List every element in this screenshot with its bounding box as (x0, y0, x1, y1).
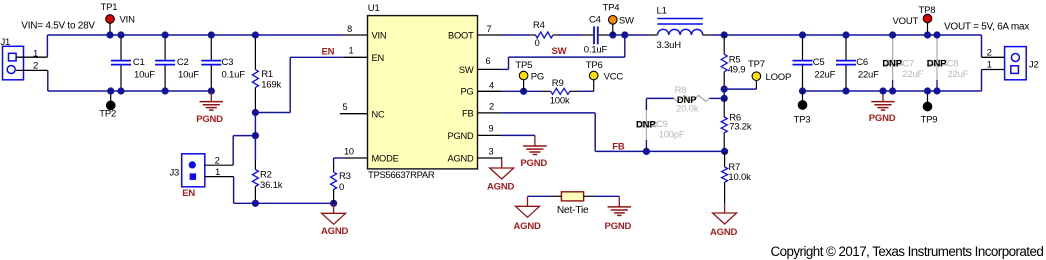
testpoint TP3 (black) (798, 91, 807, 109)
label VCC at TP6 (604, 72, 624, 83)
label TP2 (99, 109, 116, 120)
svg-text:22uF: 22uF (902, 69, 923, 80)
node PGND stub junction (879, 87, 886, 94)
label R8 grey (675, 85, 687, 96)
label VIN at TP1 (120, 15, 136, 26)
label U1 (368, 3, 380, 14)
svg-text:TPS56637RPAR: TPS56637RPAR (368, 170, 435, 181)
svg-text:VIN: VIN (372, 31, 387, 41)
svg-text:2: 2 (489, 102, 494, 112)
wire bottom rail to J2 pin1 (982, 70, 1005, 92)
label C1 (133, 57, 145, 68)
capacitor C7 (DNP, grey) (883, 37, 903, 91)
svg-text:VIN= 4.5V to 28V: VIN= 4.5V to 28V (21, 21, 95, 32)
svg-text:TP7: TP7 (748, 59, 765, 70)
label R1 value 169k (261, 79, 281, 90)
svg-text:22uF: 22uF (858, 69, 879, 80)
label TP7 (748, 59, 765, 70)
node TP9 junction (924, 87, 931, 94)
svg-text:100k: 100k (550, 95, 570, 106)
J3 pin 2 number (215, 155, 220, 166)
label R9 value 100k (550, 95, 570, 106)
node C1 bottom (117, 87, 124, 94)
label R7 value 10.0k (728, 172, 751, 183)
label TP8 (919, 5, 936, 16)
svg-text:AGND: AGND (321, 226, 349, 237)
svg-text:DNP: DNP (636, 120, 656, 131)
label L1 (657, 5, 667, 16)
capacitor C8 (DNP, grey) (927, 37, 947, 91)
svg-text:PGND: PGND (605, 221, 632, 232)
node C2 bottom (162, 87, 169, 94)
label R5 (729, 54, 741, 65)
node C2 top (162, 31, 169, 38)
node C6 bottom (842, 87, 849, 94)
svg-text:10uF: 10uF (134, 70, 155, 81)
svg-text:R2: R2 (260, 170, 272, 181)
label R2 value 36.1k (260, 180, 283, 191)
svg-text:SW: SW (552, 46, 567, 57)
label C7 value 22uF grey (902, 69, 923, 80)
label TP9 (921, 115, 938, 126)
svg-text:VOUT = 5V, 6A max: VOUT = 5V, 6A max (944, 22, 1029, 33)
wire R5 to R6 (723, 89, 725, 99)
svg-text:PG: PG (531, 72, 544, 83)
testpoint TP1 (VIN, red) (106, 15, 115, 35)
svg-text:22uF: 22uF (814, 69, 835, 80)
U1 pin 9 PGND (447, 124, 501, 141)
U1 pin 8 VIN (344, 24, 387, 41)
label R5 value 49.9 (728, 65, 746, 76)
label VIN= 4.5V to 28V (21, 21, 95, 32)
wire J1 pin1 to VIN rail (16, 35, 47, 57)
wire R4 to C4 (559, 34, 583, 36)
wire J3 pin2 to EN node (205, 136, 256, 166)
testpoint TP2 (black) (106, 91, 115, 110)
ground PGND at C3 (200, 91, 223, 110)
node C8 bottom (933, 87, 940, 94)
wire J3 pin1 to AGND net (205, 177, 234, 204)
label PGND at C3 (196, 114, 223, 125)
ground AGND at net-tie (516, 196, 540, 217)
node C7 bottom (889, 87, 896, 94)
J2 pin 1 number (987, 60, 992, 71)
resistor R8 (DNP, grey) (674, 95, 709, 101)
svg-text:TP1: TP1 (101, 2, 118, 13)
node C5 bottom (799, 87, 806, 94)
svg-text:C8: C8 (947, 58, 959, 69)
svg-text:DNP: DNP (882, 59, 902, 70)
svg-text:0: 0 (535, 38, 540, 49)
node C5 top (799, 31, 806, 38)
svg-text:0: 0 (339, 182, 344, 193)
label C8 value 22uF grey (948, 69, 969, 80)
node junction TP2 (107, 87, 114, 94)
node C3 bottom (208, 87, 215, 94)
svg-text:J1: J1 (1, 37, 11, 48)
resistor R1 (252, 35, 258, 113)
U1 pin 10 MODE (344, 146, 399, 163)
svg-text:6: 6 (486, 56, 491, 66)
svg-text:U1: U1 (368, 3, 380, 14)
svg-text:C1: C1 (133, 57, 145, 68)
svg-text:EN: EN (322, 46, 335, 57)
svg-text:VCC: VCC (604, 72, 624, 83)
label C2 (177, 57, 189, 68)
capacitor C3 (201, 35, 221, 91)
testpoint TP4 (SW, orange) (609, 15, 618, 35)
svg-text:EN: EN (182, 188, 195, 199)
svg-text:TP3: TP3 (794, 115, 811, 126)
wire BOOT to R4 (502, 34, 531, 36)
label C8 DNP (927, 59, 947, 70)
node C7 top (889, 31, 896, 38)
label R2 (260, 170, 272, 181)
label R4 (533, 20, 545, 31)
label PG at TP5 (531, 72, 544, 83)
label AGND at pin3 (487, 181, 515, 192)
node junction J3 branch (252, 132, 259, 139)
label R1 (261, 69, 273, 80)
label VOUT = 5V, 6A max (944, 22, 1029, 33)
svg-text:1: 1 (987, 60, 992, 71)
wire pin9 to PGND (502, 134, 535, 136)
label AGND below R3 (321, 226, 349, 237)
capacitor C9 (DNP, grey) (636, 110, 656, 151)
wire net-tie right to PGND (595, 195, 620, 197)
svg-text:PGND: PGND (196, 114, 223, 125)
svg-text:TP4: TP4 (603, 3, 620, 14)
label R9 (552, 78, 564, 89)
label R8 DNP (677, 95, 697, 106)
U1 pin 5 NC (340, 102, 385, 119)
label C4 (589, 14, 601, 25)
wire pin3 down (501, 157, 503, 158)
node EN junction R1 bottom (252, 109, 259, 116)
label C4 value 0.1uF (584, 45, 608, 56)
node TP7 junction (721, 86, 728, 93)
svg-text:TP2: TP2 (99, 109, 116, 120)
svg-text:TP9: TP9 (921, 115, 938, 126)
label Net-Tie (557, 205, 589, 216)
node C8 top (933, 31, 940, 38)
svg-text:C7: C7 (902, 58, 914, 69)
wire VOUT rail to J2 pin2 (982, 35, 1005, 57)
label PGND at net-tie (605, 221, 632, 232)
testpoint TP5 (PG, yellow) (519, 71, 528, 91)
svg-text:100pF: 100pF (659, 130, 685, 141)
J1 pin 1 number (33, 49, 38, 60)
svg-text:R4: R4 (533, 20, 545, 31)
svg-text:4: 4 (489, 80, 494, 90)
svg-text:SW: SW (619, 15, 634, 26)
node C6 top (842, 31, 849, 38)
testpoint TP7 (LOOP, yellow) (724, 72, 761, 89)
svg-text:7: 7 (487, 24, 492, 34)
label C7 DNP (882, 59, 902, 70)
svg-text:36.1k: 36.1k (260, 180, 283, 191)
svg-text:VOUT: VOUT (893, 16, 919, 27)
label PGND at pin9 (520, 158, 547, 169)
net label FB (612, 142, 625, 153)
wire SW node to L1 (625, 34, 649, 36)
wire MODE pin to R3 (334, 158, 344, 162)
J1 pin 2 number (33, 60, 38, 71)
net-tie NT1 (553, 192, 595, 201)
capacitor C2 (155, 35, 175, 91)
label C8 grey (947, 58, 959, 69)
svg-text:3: 3 (489, 146, 494, 156)
label R3 value 0 (339, 182, 344, 193)
label R4 value 0 (535, 38, 540, 49)
inductor L1 (649, 19, 713, 36)
resistor R5 (721, 35, 727, 89)
node TP8 junction (924, 31, 931, 38)
svg-text:PGND: PGND (520, 158, 547, 169)
resistor R9 (541, 88, 580, 94)
node R1 top (252, 31, 259, 38)
testpoint TP8 (VOUT, red) (923, 14, 932, 35)
label LOOP (766, 72, 792, 83)
label PGND mid output (869, 113, 896, 124)
node R8 branch junction (721, 95, 728, 102)
label R6 (729, 112, 741, 123)
svg-text:L1: L1 (657, 5, 667, 16)
svg-text:Copyright © 2017, Texas Instru: Copyright © 2017, Texas Instruments Inco… (771, 244, 1044, 259)
node SW junction branch (621, 31, 628, 38)
svg-text:TP6: TP6 (586, 60, 603, 71)
svg-text:22uF: 22uF (948, 69, 969, 80)
op-amp U1 body (TPS56637RPAR) (368, 16, 478, 169)
label TP5 (515, 60, 532, 71)
svg-text:5: 5 (343, 102, 348, 112)
label L1 value 3.3uH (657, 40, 682, 51)
label SW at TP4 (619, 15, 634, 26)
connector J3 (170, 154, 205, 187)
label TP4 (603, 3, 620, 14)
U1 pin 7 BOOT (448, 24, 502, 41)
label C3 (222, 57, 234, 68)
svg-text:9: 9 (489, 124, 494, 134)
svg-text:AGND: AGND (710, 227, 738, 238)
resistor R2 (252, 160, 258, 203)
svg-text:2: 2 (987, 48, 992, 59)
resistor R6 (721, 98, 727, 151)
svg-text:AGND: AGND (447, 154, 474, 164)
svg-text:FB: FB (462, 108, 473, 118)
svg-text:0.1uF: 0.1uF (584, 45, 608, 56)
svg-text:PG: PG (460, 87, 473, 97)
svg-text:PGND: PGND (869, 113, 896, 124)
svg-text:10.0k: 10.0k (728, 172, 751, 183)
ground AGND below R7 (713, 203, 737, 224)
svg-text:FB: FB (612, 142, 625, 153)
svg-text:C9: C9 (656, 119, 668, 130)
wire VOUT top rail (712, 34, 982, 36)
svg-text:3.3uH: 3.3uH (657, 40, 682, 51)
resistor R4 (530, 32, 558, 38)
ground PGND at net-tie (608, 196, 631, 215)
svg-text:BOOT: BOOT (448, 31, 474, 41)
svg-text:TP5: TP5 (515, 60, 532, 71)
svg-text:SW: SW (459, 65, 474, 75)
svg-text:C5: C5 (813, 57, 825, 68)
svg-text:R3: R3 (339, 171, 351, 182)
testpoint TP6 (VCC, yellow) (589, 71, 598, 80)
label C9 DNP (636, 120, 656, 131)
label C3 value 0.1uF (222, 70, 246, 81)
wire net-tie left to AGND (528, 195, 553, 197)
node FB junction at R6 bottom (721, 148, 728, 155)
node R3 bottom junction (330, 200, 337, 207)
label VOUT (893, 16, 919, 27)
svg-text:J2: J2 (1029, 60, 1039, 71)
svg-text:DNP: DNP (927, 59, 947, 70)
svg-text:NC: NC (372, 109, 386, 119)
U1 pin 6 SW (459, 56, 502, 75)
wire PGND output bottom rail (803, 90, 982, 92)
U1 pin 4 PG (460, 80, 501, 96)
label TPS56637RPAR (368, 170, 435, 181)
wire PGND bottom rail (48, 90, 212, 92)
label C6 (856, 57, 868, 68)
connector J2 (1005, 47, 1039, 80)
svg-text:49.9: 49.9 (728, 65, 746, 76)
net label EN (322, 46, 335, 57)
capacitor C6 (836, 35, 856, 91)
wire AGND net bottom (234, 202, 334, 204)
node R2 bottom junction (252, 200, 259, 207)
resistor R7 (722, 151, 728, 203)
label AGND below R7 (710, 227, 738, 238)
ground AGND below R3 (322, 203, 346, 224)
resistor R3 (331, 162, 337, 203)
svg-text:0.1uF: 0.1uF (222, 70, 246, 81)
connector J1 (1, 37, 24, 80)
node C1 top (117, 31, 124, 38)
U1 pin 1 EN (344, 45, 384, 63)
label C5 value 22uF (814, 69, 835, 80)
wire C4 to SW node (609, 34, 625, 36)
wire EN node down to R2 (254, 113, 256, 161)
label TP6 (586, 60, 603, 71)
U1 pin 3 AGND (447, 146, 501, 163)
ground PGND mid output (871, 91, 894, 110)
node PG junction TP5 (520, 88, 527, 95)
wire SW branch to pin6 (502, 35, 625, 69)
svg-text:MODE: MODE (372, 154, 399, 164)
svg-text:73.2k: 73.2k (729, 121, 752, 132)
svg-text:TP8: TP8 (919, 5, 936, 16)
J2 pin 2 number (987, 48, 992, 59)
label TP3 (794, 115, 811, 126)
svg-text:R9: R9 (552, 78, 564, 89)
svg-text:Net-Tie: Net-Tie (557, 205, 589, 216)
label C9 grey (656, 119, 668, 130)
svg-text:8: 8 (347, 24, 352, 34)
label copyright (771, 244, 1044, 259)
svg-text:1: 1 (349, 45, 354, 55)
svg-text:C4: C4 (589, 14, 601, 25)
wire EN net from IC pin1 (255, 57, 343, 112)
svg-text:169k: 169k (261, 79, 281, 90)
svg-text:VIN: VIN (120, 15, 136, 26)
label R8 value 20.0k grey (676, 103, 699, 114)
ground PGND at pin9 (523, 135, 546, 154)
svg-text:J3: J3 (170, 167, 180, 178)
node VIN junction at TP1 (106, 31, 113, 38)
testpoint TP9 (black) (923, 91, 932, 111)
label C1 value 10uF (134, 70, 155, 81)
node SW junction TP4 (609, 31, 616, 38)
wire J1 pin2 to bottom rail (16, 70, 48, 91)
label R3 (339, 171, 351, 182)
wire FB net (502, 113, 725, 151)
wire R8 branch (646, 98, 724, 110)
label TP1 (101, 2, 118, 13)
ground AGND at pin3 (490, 158, 514, 179)
svg-text:2: 2 (33, 60, 38, 71)
label C5 (813, 57, 825, 68)
wire PG net from pin4 (502, 90, 541, 92)
label R6 value 73.2k (729, 121, 752, 132)
label C6 value 22uF (858, 69, 879, 80)
label C9 value 100pF grey (659, 130, 685, 141)
capacitor C4 (horizontal) (583, 26, 610, 44)
svg-text:10uF: 10uF (178, 70, 199, 81)
svg-text:1: 1 (33, 49, 38, 60)
svg-text:20.0k: 20.0k (676, 103, 699, 114)
capacitor C1 (111, 35, 131, 91)
svg-text:AGND: AGND (487, 181, 515, 192)
svg-text:EN: EN (372, 53, 385, 63)
svg-text:AGND: AGND (514, 221, 542, 232)
label EN under J3 (182, 188, 195, 199)
svg-text:C3: C3 (222, 57, 234, 68)
J3 pin 1 number (215, 167, 220, 178)
svg-text:C2: C2 (177, 57, 189, 68)
net label SW (552, 46, 567, 57)
node FB / C9 junction (643, 148, 650, 155)
svg-text:PGND: PGND (447, 131, 474, 141)
svg-text:10: 10 (344, 146, 354, 156)
label C2 value 10uF (178, 70, 199, 81)
node C3 top (208, 31, 215, 38)
label C7 grey (902, 58, 914, 69)
label AGND at net-tie (514, 221, 542, 232)
label R7 (728, 162, 740, 173)
node L1/R5 junction (721, 31, 728, 38)
svg-text:LOOP: LOOP (766, 72, 792, 83)
wire R9 to TP6 (580, 80, 594, 91)
svg-text:C6: C6 (856, 57, 868, 68)
U1 pin 2 FB (462, 102, 501, 119)
wire VIN top rail (47, 34, 343, 36)
capacitor C5 (793, 35, 813, 91)
